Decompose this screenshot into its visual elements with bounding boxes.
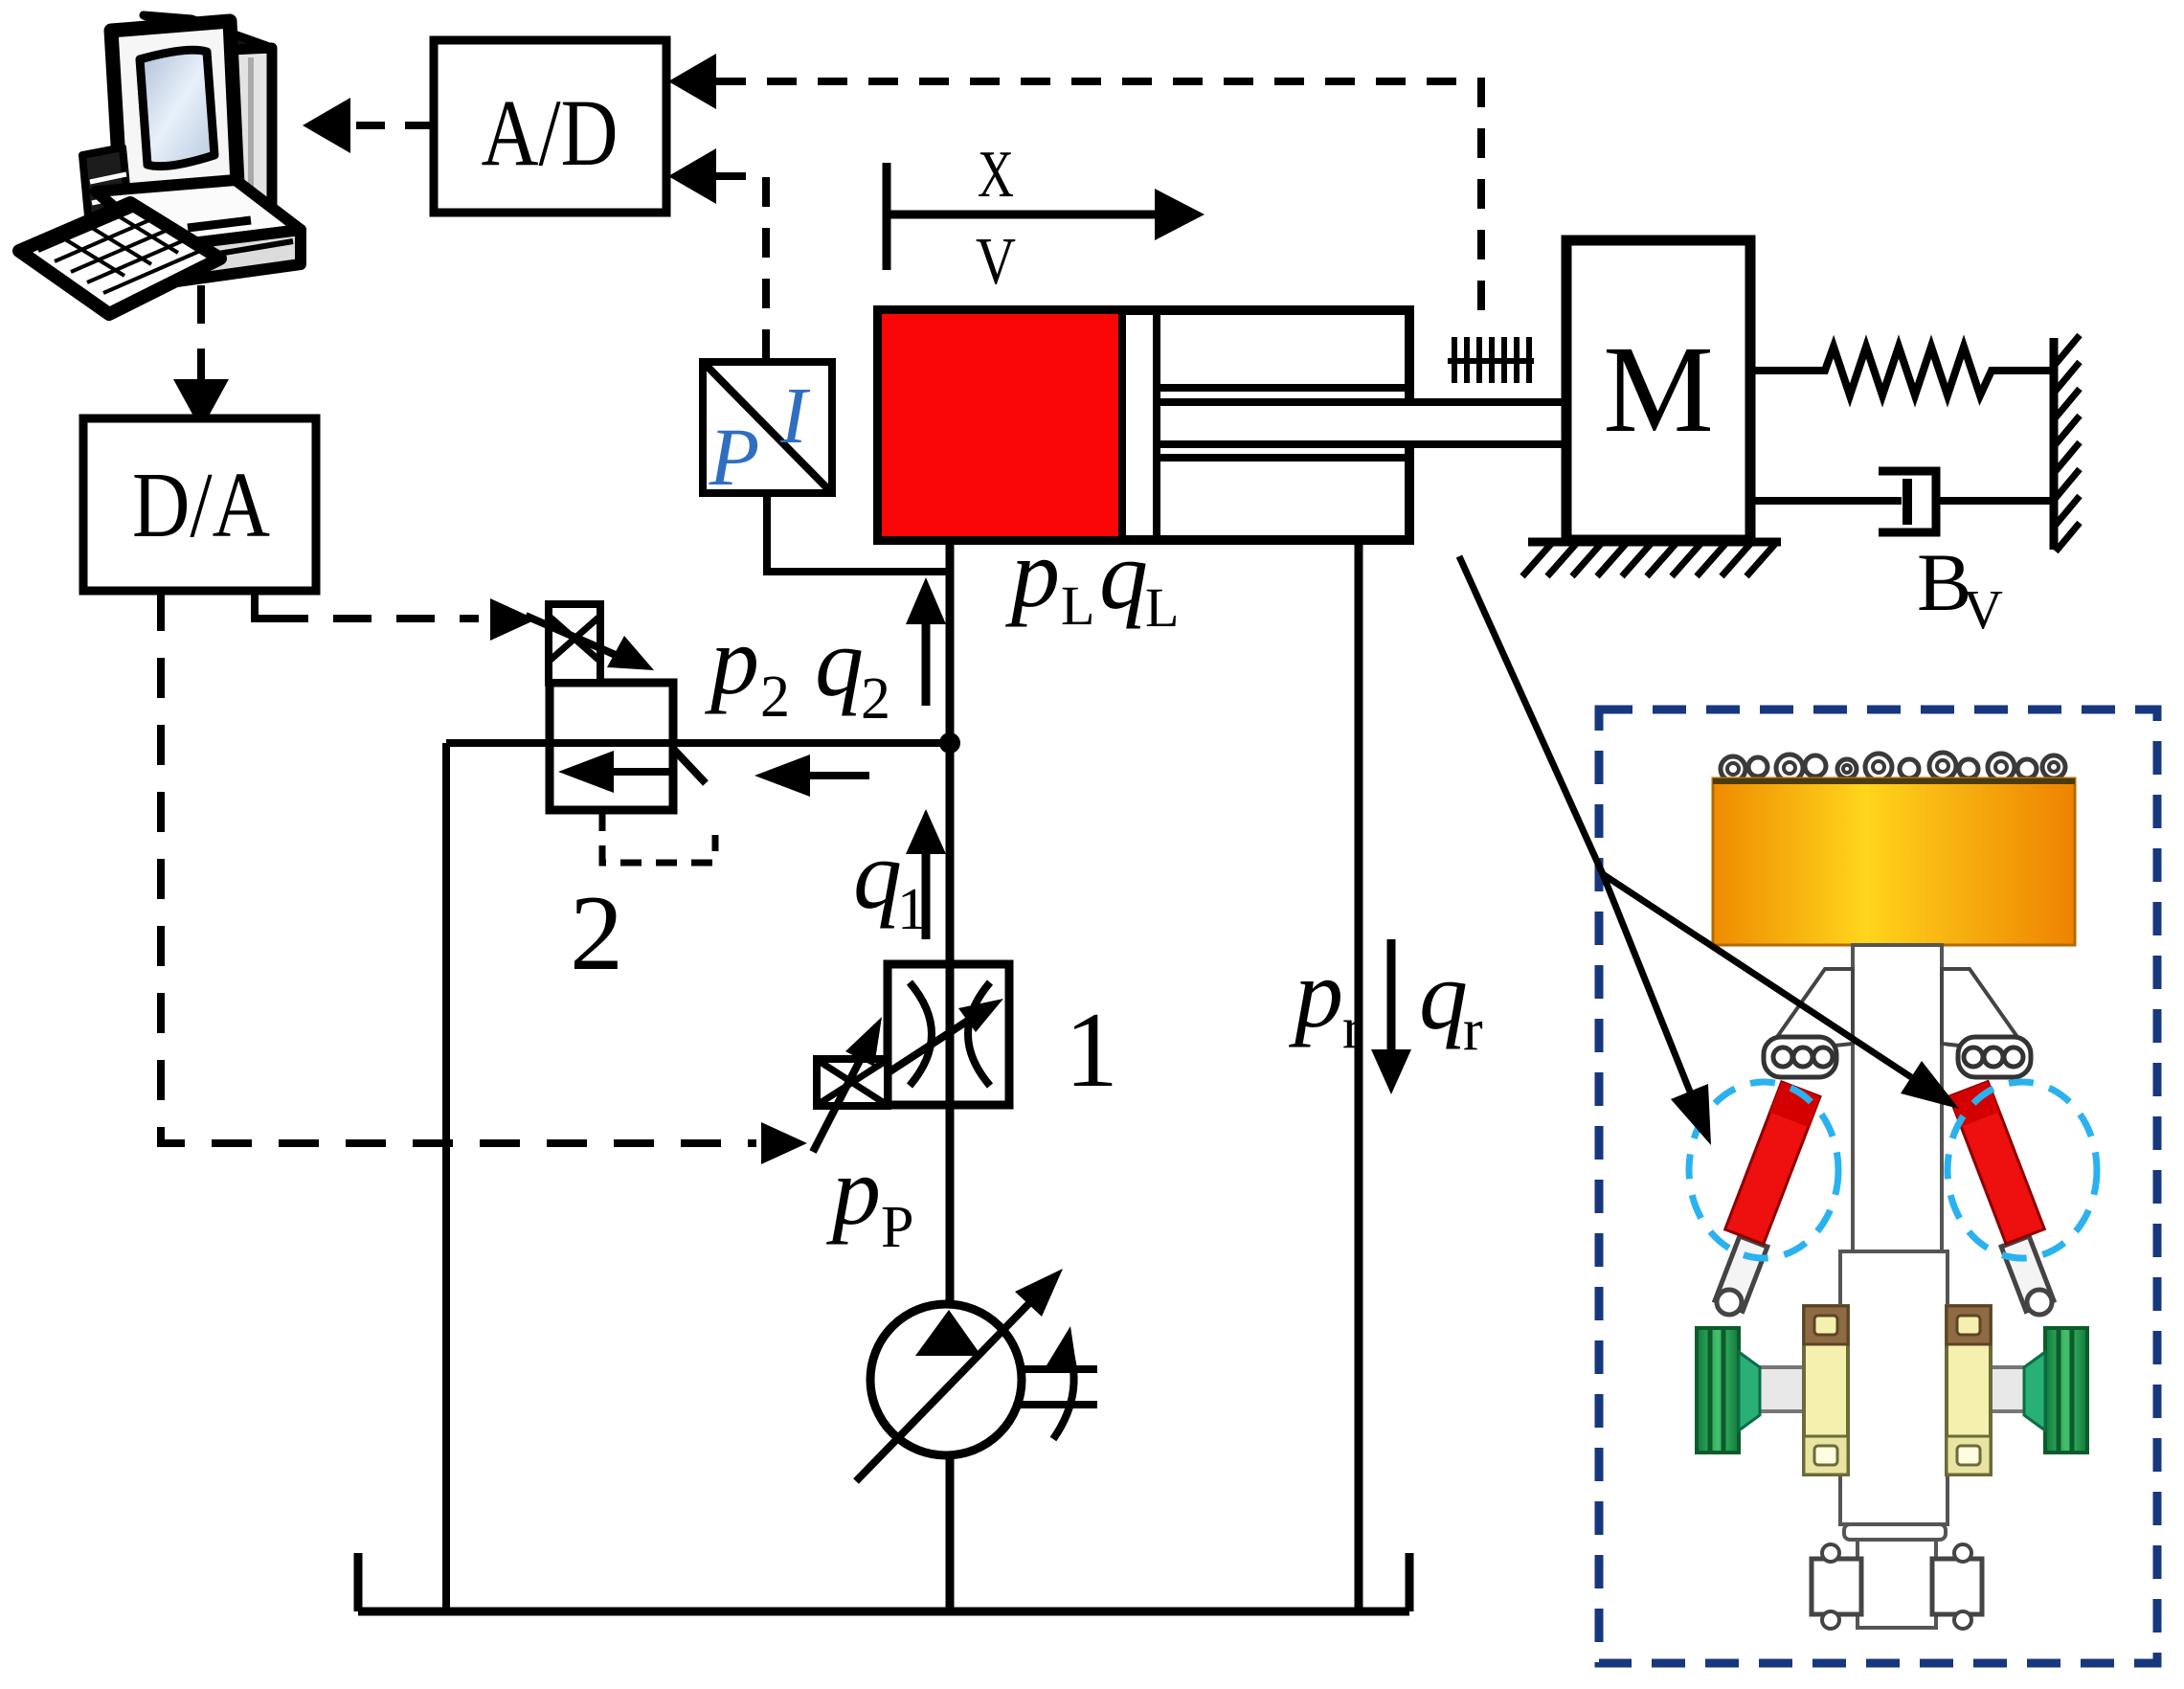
- x/v coordinate arrow: [887, 138, 1205, 299]
- P/I converter box: [703, 362, 832, 503]
- valve 2 adjust arrow: [526, 616, 624, 659]
- valve 1 solenoid box: [817, 1059, 888, 1106]
- svg-text:p: p: [705, 607, 759, 715]
- drum: [1713, 778, 2075, 945]
- wall (hatched): [2054, 335, 2080, 552]
- svg-text:P: P: [881, 1195, 913, 1260]
- valve 2 solenoid box: [549, 604, 600, 683]
- svg-text:q: q: [815, 609, 864, 717]
- svg-text:2: 2: [760, 664, 790, 730]
- valve 1 throttle arcs: [910, 982, 932, 1086]
- svg-text:r: r: [1463, 998, 1483, 1063]
- green wheel right: [2045, 1328, 2087, 1453]
- tower behind: [144, 15, 272, 50]
- ground under M: [1522, 542, 1781, 576]
- svg-text:p: p: [826, 1137, 881, 1246]
- cyan dashed circle right: [1948, 1082, 2097, 1258]
- svg-text:P: P: [709, 411, 760, 503]
- damper B_V: [1750, 471, 2052, 532]
- svg-text:r: r: [1342, 996, 1362, 1061]
- hole plates: [1764, 1037, 1836, 1077]
- red actuator right: [1949, 1082, 2044, 1244]
- green wheel left: [1697, 1328, 1739, 1453]
- svg-text:q: q: [1099, 522, 1148, 630]
- rod-side chamber lines: [1157, 384, 1406, 392]
- keyboard: [19, 203, 220, 314]
- column wide section: [1840, 1251, 1948, 1524]
- base unit: [96, 180, 301, 247]
- svg-text:q: q: [853, 822, 902, 930]
- supply line (left cylinder port down to pump and tank): [946, 540, 955, 1308]
- monitor: [111, 21, 237, 193]
- pointer arrow to right actuator: [1603, 874, 1911, 1077]
- flow arrow q2 (up): [922, 622, 931, 706]
- wire valve2 to junction: [446, 739, 950, 747]
- svg-text:2: 2: [861, 666, 890, 732]
- valve 1 adjust arrow: [869, 1015, 977, 1085]
- valve 1 body (flow control): [888, 964, 1009, 1105]
- svg-text:X: X: [978, 138, 1014, 212]
- svg-text:V: V: [1963, 578, 2003, 641]
- flange: [1844, 1524, 1946, 1540]
- feedback wire P/I to A/D: [668, 148, 716, 204]
- spring to wall: [1750, 347, 2052, 395]
- D/A box: [83, 418, 316, 591]
- u-joint left: [1715, 1236, 1767, 1311]
- inset dashed frame: [1599, 709, 2157, 1663]
- red actuator left: [1725, 1082, 1820, 1244]
- svg-text:A/D: A/D: [482, 79, 619, 186]
- mass M block: [1566, 240, 1750, 540]
- pointer arrow to left actuator: [1603, 874, 1690, 1092]
- lower column: [1858, 1540, 1936, 1628]
- svg-text:1: 1: [1065, 991, 1118, 1110]
- pointer line to inset: [1459, 556, 1603, 874]
- u-joint right: [2001, 1236, 2054, 1311]
- valve 1 solenoid diagonal arrow: [813, 1046, 867, 1152]
- red piston chamber: [882, 314, 1118, 536]
- svg-text:p: p: [1289, 940, 1343, 1048]
- svg-text:q: q: [1419, 942, 1468, 1050]
- valve 2 body (relief valve): [550, 683, 673, 810]
- pump variable arrow: [856, 1300, 1032, 1481]
- valve 2 internal arrow: [605, 768, 670, 776]
- return line (right cylinder port to tank): [1355, 540, 1363, 1611]
- wire A/D to computer with arrow: [347, 122, 434, 129]
- bearing block left: [1804, 1306, 1848, 1475]
- cyan dashed circle left: [1689, 1082, 1838, 1258]
- svg-text:M: M: [1603, 321, 1714, 459]
- axle: [1735, 1367, 1831, 1411]
- gears on top of drum: [1721, 753, 2065, 781]
- flow arrow toward valve 2: [804, 772, 869, 779]
- svg-text:L: L: [1061, 574, 1094, 637]
- brackets: [1766, 969, 1853, 1053]
- vent panel under monitor left: [82, 147, 132, 257]
- svg-text:L: L: [1145, 576, 1179, 639]
- wire P/I to cylinder port: [767, 493, 946, 572]
- svg-text:V: V: [976, 225, 1016, 299]
- pump (variable displacement): [870, 1304, 1022, 1455]
- valve 2 return line to tank: [442, 743, 450, 1611]
- inset: vibratory roller machine drawing: [1689, 753, 2097, 1629]
- feedback wire x-sensor to A/D (top): [668, 54, 716, 109]
- friction / position pickoff symbol: [1448, 337, 1534, 383]
- control wire D/A to valve 1 (dashed): [161, 591, 756, 1143]
- A/D box: [434, 40, 666, 213]
- control wire D/A to valve 2: [255, 591, 270, 619]
- svg-text:2: 2: [570, 874, 623, 993]
- computer PC icon: [19, 15, 301, 314]
- piston rod: [1157, 398, 1566, 406]
- valve 2 spring tick: [673, 749, 706, 783]
- piston lines: [1118, 312, 1126, 538]
- svg-text:I: I: [779, 372, 811, 461]
- pump control symbol: [1018, 1340, 1097, 1439]
- svg-text:p: p: [1005, 520, 1060, 628]
- wire computer down to D/A with arrow: [197, 285, 205, 381]
- bearing block right: [1947, 1306, 1991, 1475]
- hydraulic cylinder barrel: [878, 310, 1409, 540]
- tank bottom: [358, 1553, 1409, 1611]
- bottom clamp: [1812, 1559, 1861, 1614]
- flow arrow q1 (up): [922, 852, 931, 939]
- junction node: [939, 732, 960, 754]
- svg-text:D/A: D/A: [132, 454, 270, 557]
- valve 2 pilot dashed line: [602, 810, 715, 863]
- column upper: [1853, 945, 1942, 1253]
